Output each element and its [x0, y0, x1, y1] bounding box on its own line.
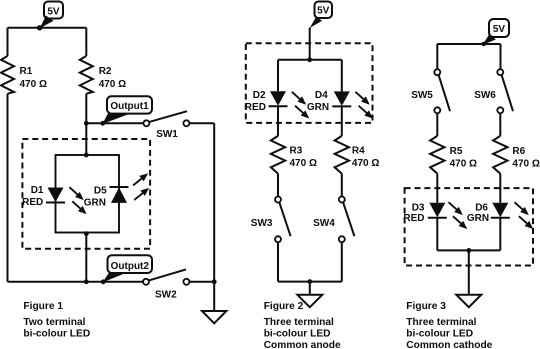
svg-text:SW5: SW5 — [411, 90, 433, 101]
resistor R3 — [271, 136, 317, 174]
wire D3 to bottom rail — [436, 218, 438, 251]
svg-text:SW2: SW2 — [155, 290, 177, 301]
switch SW1 — [143, 111, 189, 140]
wire left down to SW5 — [436, 44, 438, 69]
wire R6 to D6 — [499, 174, 501, 203]
node Output1 attach — [100, 121, 105, 126]
wire right rail down — [213, 123, 215, 311]
dashed outline fig2 bi-colour LED — [246, 43, 373, 123]
svg-text:R5: R5 — [450, 146, 463, 157]
svg-text:bi-colour LED: bi-colour LED — [23, 328, 90, 339]
wire SW5 to R5 — [436, 113, 438, 135]
svg-text:R3: R3 — [290, 145, 303, 156]
svg-text:Two terminal: Two terminal — [23, 317, 85, 328]
resistor R2 — [80, 56, 126, 94]
wire right down to SW6 — [500, 44, 502, 69]
switch SW6 — [474, 69, 513, 113]
svg-text:470 Ω: 470 Ω — [290, 158, 317, 169]
svg-text:Figure 3: Figure 3 — [406, 301, 446, 312]
wire bottom rail fig1 — [8, 281, 144, 283]
svg-text:R2: R2 — [99, 66, 112, 77]
svg-text:SW3: SW3 — [251, 218, 273, 229]
svg-text:R1: R1 — [20, 66, 33, 77]
wire R3 to SW3 — [277, 174, 279, 197]
svg-text:D2: D2 — [253, 90, 266, 101]
svg-text:5V: 5V — [317, 6, 330, 17]
power label 5V (fig1) — [37, 2, 63, 31]
wire R2 bottom to LED box — [85, 94, 87, 155]
switch SW5 — [411, 69, 450, 113]
node bottom junction fig2 — [307, 279, 312, 284]
caption fig3 — [406, 301, 492, 349]
LED D5 — [84, 171, 152, 209]
switch SW2 — [143, 269, 189, 300]
wire R2 top — [85, 28, 87, 56]
svg-text:5V: 5V — [493, 24, 506, 35]
wire to ground fig3 — [468, 250, 470, 294]
switch SW4 — [313, 197, 354, 243]
node top junction fig2 — [307, 57, 312, 62]
svg-text:SW1: SW1 — [156, 129, 178, 140]
ground fig3 — [456, 295, 481, 308]
svg-text:R6: R6 — [512, 146, 525, 157]
wire D6 to bottom rail — [499, 218, 501, 251]
resistor R6 — [493, 136, 540, 174]
svg-text:SW4: SW4 — [313, 218, 335, 229]
svg-text:Figure 1: Figure 1 — [23, 301, 63, 312]
wire to ground fig2 — [309, 282, 311, 295]
svg-text:GRN: GRN — [467, 213, 489, 224]
power label 5V (fig3) — [482, 19, 510, 46]
LED D1 — [22, 185, 89, 217]
label Output1 — [102, 96, 152, 124]
svg-text:R4: R4 — [352, 145, 365, 156]
svg-text:Output2: Output2 — [111, 261, 150, 272]
svg-text:Common cathode: Common cathode — [406, 340, 492, 349]
wire 5V down fig2 — [309, 28, 311, 60]
ground fig1 — [202, 311, 226, 323]
svg-text:D4: D4 — [315, 90, 328, 101]
svg-text:D1: D1 — [31, 185, 44, 196]
svg-text:Figure 2: Figure 2 — [264, 301, 304, 312]
node bottom of LED pair box — [84, 231, 89, 236]
wire LED box to bottom rail — [85, 234, 87, 282]
svg-text:470 Ω: 470 Ω — [99, 79, 126, 90]
resistor R1 — [1, 56, 47, 94]
LED D2 — [245, 89, 312, 121]
svg-text:D5: D5 — [94, 186, 107, 197]
node bottom junction fig3 — [466, 248, 471, 253]
wire SW2 to right rail — [189, 281, 214, 283]
LED pair loop box fig1 — [56, 155, 120, 233]
wire SW4 to bottom rail — [341, 242, 343, 281]
svg-text:SW6: SW6 — [474, 90, 496, 101]
svg-text:Output1: Output1 — [110, 101, 149, 112]
wire SW1 to right rail — [189, 122, 214, 124]
caption fig2 — [264, 301, 341, 349]
node junction bottom — [84, 279, 89, 284]
power label 5V (fig2) — [310, 2, 332, 29]
svg-text:RED: RED — [403, 213, 424, 224]
wire R4 to SW4 — [341, 174, 343, 197]
svg-text:RED: RED — [22, 197, 43, 208]
wire D4 to R4 — [341, 106, 343, 135]
wire top rail fig1 — [8, 27, 87, 29]
svg-text:D3: D3 — [412, 202, 425, 213]
svg-text:Three terminal: Three terminal — [264, 317, 334, 328]
svg-text:RED: RED — [245, 102, 266, 113]
LED D4 — [307, 89, 375, 121]
resistor R4 — [335, 136, 380, 174]
node junction Output1 — [84, 121, 89, 126]
wire left branch upper — [7, 28, 9, 56]
svg-text:GRN: GRN — [84, 198, 106, 209]
svg-text:bi-colour LED: bi-colour LED — [406, 329, 473, 340]
wire SW6 to R6 — [499, 113, 501, 135]
switch SW3 — [251, 197, 291, 243]
wire bottom rail fig2 — [278, 281, 342, 283]
wire D2 to R3 — [277, 106, 279, 136]
svg-text:D6: D6 — [475, 202, 488, 213]
wire top rail fig2 — [278, 59, 342, 61]
svg-text:470 Ω: 470 Ω — [450, 158, 477, 169]
svg-text:Common anode: Common anode — [264, 340, 341, 349]
node top of LED pair box — [84, 153, 89, 158]
wire right branch to D4 — [341, 60, 343, 92]
svg-text:470 Ω: 470 Ω — [20, 79, 47, 90]
svg-text:5V: 5V — [47, 7, 60, 18]
ground fig2 — [297, 295, 322, 307]
resistor R5 — [430, 136, 477, 174]
svg-text:bi-colour LED: bi-colour LED — [264, 329, 331, 340]
wire left branch to D2 — [277, 60, 279, 91]
svg-text:GRN: GRN — [307, 102, 329, 113]
label Output2 — [103, 255, 152, 282]
svg-text:470 Ω: 470 Ω — [352, 158, 379, 169]
wire to SW1 — [86, 122, 143, 124]
dashed outline fig3 bi-colour LED — [405, 188, 533, 265]
dashed outline fig1 bi-colour LED — [22, 139, 150, 249]
wire top rail fig3 — [437, 43, 500, 45]
node Output2 attach — [101, 279, 106, 284]
LED D3 — [403, 200, 469, 232]
wire SW3 to bottom rail — [277, 242, 279, 281]
svg-text:Three terminal: Three terminal — [406, 317, 476, 328]
caption fig1 — [23, 301, 90, 340]
LED D6 — [467, 200, 536, 232]
wire left branch lower — [7, 94, 9, 282]
wire R5 to D3 — [436, 174, 438, 203]
node right rail junction — [212, 279, 217, 284]
wire bottom rail fig3 — [437, 249, 500, 251]
svg-text:470 Ω: 470 Ω — [512, 158, 539, 169]
